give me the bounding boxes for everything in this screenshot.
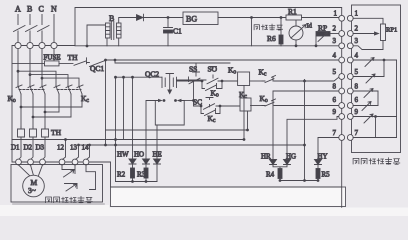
terminal D3: [40, 159, 46, 165]
svg-text:4: 4: [333, 52, 337, 60]
phase A input wire and knife switch: [14, 15, 26, 43]
riser 4 to 5: [383, 60, 385, 77]
svg-text:C1: C1: [173, 27, 182, 36]
resistor R3: [144, 168, 148, 178]
wire r5: [353, 76, 384, 78]
svg-text:c: c: [244, 94, 247, 100]
svg-text:TH: TH: [68, 53, 79, 62]
terminal 5: [339, 74, 345, 80]
svg-text:3: 3: [355, 37, 359, 45]
QC2 bridge contact arrows: [155, 99, 184, 101]
wire diode to BG: [144, 17, 184, 19]
thermal relay contact TH: [59, 58, 87, 66]
close button SC: [194, 98, 241, 110]
svg-text:4: 4: [355, 52, 359, 60]
wire lamp HO riser with bridge stub: [146, 101, 155, 160]
wire long vertical x105: [105, 60, 107, 145]
wire terminal 9 to HG lamp: [287, 117, 339, 160]
r terminal 8: [347, 88, 353, 94]
row1 wire: [177, 80, 238, 82]
thermal heater TH element 2: [30, 127, 37, 159]
wire Ko out3 down: [44, 94, 46, 127]
phase C drop to contactor: [41, 49, 43, 86]
lamp HR: [270, 160, 277, 165]
r terminal 2: [347, 31, 353, 37]
terminal 9: [339, 114, 345, 120]
wire HY to R5: [317, 165, 319, 169]
contactor Kc main contact 3: [77, 85, 83, 94]
vertical V1 to rails and lamp return: [115, 77, 117, 181]
wire D2 to motor: [31, 165, 34, 176]
lamp HG: [284, 160, 291, 165]
node primary tap on bus: [86, 45, 89, 48]
node r9-riser: [374, 115, 377, 118]
r terminal 7: [347, 135, 353, 141]
wire r9: [353, 116, 396, 118]
wire primary bottom stub: [106, 38, 108, 46]
contactor Kc main contact 2: [66, 85, 72, 94]
terminal B: [27, 42, 33, 48]
svg-text:RP: RP: [318, 24, 327, 33]
svg-text:RP1: RP1: [386, 27, 397, 34]
wire QC2 right to buttons: [177, 79, 207, 81]
limit switch row5: [366, 74, 375, 83]
stop button SS: [189, 63, 201, 84]
svg-text:TH: TH: [51, 128, 62, 137]
svg-text:FUSE: FUSE: [44, 54, 61, 62]
wire coil Kc to Ko contact: [251, 105, 263, 107]
wire R3 bottom: [145, 178, 147, 182]
contactor Ko main contact 1: [16, 85, 22, 94]
wire R1 to terminal 1: [302, 17, 339, 19]
wire row2 to terminal 6: [278, 105, 339, 107]
label 阀门电动装置 right: [353, 158, 400, 164]
limit switch b in motor box: [65, 184, 78, 192]
valve position meter: [289, 26, 303, 40]
right common vertical: [396, 60, 398, 138]
node crossover B: [32, 116, 35, 119]
svg-text:c: c: [264, 72, 267, 78]
wire BG to R1: [218, 17, 286, 19]
svg-text:9: 9: [355, 108, 359, 116]
contactor Ko main contact 2: [28, 85, 34, 94]
wire terminal 13 riser: [76, 145, 79, 159]
svg-text:HW: HW: [117, 151, 129, 159]
svg-text:c: c: [86, 98, 89, 104]
Kc mechanical link: [57, 89, 81, 91]
potentiometer RP body: [316, 32, 330, 37]
svg-text:D1: D1: [11, 144, 20, 152]
capacitor C1: [164, 18, 173, 46]
phase C input wire and knife switch: [38, 15, 50, 43]
svg-text:BG: BG: [186, 15, 197, 24]
contactor Kc main contact 1: [54, 85, 60, 94]
control rail A: [106, 129, 248, 131]
wire terminal 12 riser: [63, 140, 66, 160]
svg-text:6: 6: [333, 96, 337, 104]
wire secondary bottom to bus: [118, 38, 120, 46]
svg-text:5: 5: [355, 68, 359, 76]
phase B input wire and knife switch: [26, 15, 38, 43]
terminal column left: terminal 1: [339, 15, 345, 21]
limit switch a in motor box: [62, 170, 75, 178]
top bus / edge with supply terminals: [75, 45, 342, 47]
node crossover A: [20, 106, 23, 109]
svg-text:C: C: [39, 5, 44, 14]
r terminal 3: [347, 43, 353, 49]
node RP bottom: [315, 44, 318, 47]
node mid tap: [250, 16, 253, 19]
wire r8: [353, 90, 378, 92]
svg-text:QC1: QC1: [90, 64, 104, 73]
svg-text:6: 6: [355, 96, 359, 104]
limit switch row6: [362, 102, 371, 111]
voltage stabilizer BG box: [183, 12, 218, 25]
switch QC1: [87, 60, 107, 67]
right actuator box: [352, 5, 401, 153]
wire HW to R2: [132, 164, 134, 168]
node lamp return top: [303, 80, 306, 83]
thermal heater TH element 3: [42, 127, 49, 159]
terminal 6: [339, 103, 345, 109]
wire QC2 bridge right stub to SC branch: [184, 100, 193, 102]
svg-text:A: A: [15, 5, 21, 14]
limit switch row9: [364, 114, 373, 123]
wire R6 bottom to bus: [280, 44, 282, 46]
svg-text:SO: SO: [208, 65, 218, 74]
wire 13 into box: [74, 165, 76, 174]
node crossover C: [44, 111, 47, 114]
terminal D2: [28, 159, 34, 165]
holding contact Kc parallel below row2: [201, 106, 220, 116]
wire terminal2 to RP: [330, 33, 339, 35]
svg-text:o: o: [13, 98, 16, 104]
wire coil Ko bottom to bus: [243, 86, 245, 140]
svg-text:c: c: [213, 118, 216, 124]
diode D: [137, 14, 144, 21]
node meter bottom: [295, 44, 298, 47]
wire r4 with limit switch: [353, 59, 396, 61]
svg-text:13: 13: [70, 144, 78, 152]
wire terminal 8 to HR lamp: [273, 91, 339, 160]
crossover wire Kc1 to C line: [45, 111, 59, 113]
r terminal 9: [347, 114, 353, 120]
wire HE down: [156, 164, 158, 182]
wire 14 into box loop: [77, 165, 96, 190]
node C1 top: [167, 16, 170, 19]
wire Ko out2 down: [32, 94, 34, 127]
wire RP left down to bus: [315, 36, 317, 46]
lamp HW: [129, 159, 136, 164]
node row2 left: [200, 105, 203, 108]
white page area below figure: [0, 208, 408, 217]
main controller box outline: [12, 8, 342, 208]
terminal D1: [16, 159, 22, 165]
holding contact Ko parallel below row1: [202, 81, 222, 91]
terminal 7: [339, 135, 345, 141]
wire Kc out3 down: [81, 94, 83, 107]
crossover wire Kc3 to A line: [21, 106, 82, 108]
wire D1 to motor: [19, 165, 30, 176]
svg-text:N: N: [51, 5, 57, 14]
svg-text:R4: R4: [266, 171, 275, 179]
QC2 lower bridge bracket: [155, 101, 184, 126]
wire terminal 7 to HY lamp: [318, 138, 339, 160]
terminal 13: [72, 159, 78, 165]
vertical V2 tap: [123, 77, 125, 139]
switch QC2 upper contacts: [162, 77, 177, 87]
svg-text:7: 7: [333, 129, 337, 137]
second control rail: [115, 60, 230, 63]
fuse FUSE: [45, 61, 60, 66]
svg-text:1: 1: [334, 10, 338, 18]
resistor R5: [316, 169, 320, 179]
node lamp return on rail C: [114, 144, 117, 147]
lamp group bottom wire: [116, 181, 158, 183]
terminal N: [51, 42, 57, 48]
node branch C to Kc: [41, 77, 44, 80]
svg-text:o: o: [216, 93, 219, 99]
svg-text:5: 5: [333, 68, 337, 76]
wire HR HG join to R4: [273, 165, 287, 169]
svg-text:R2: R2: [117, 171, 126, 179]
resistor R4: [278, 169, 282, 179]
svg-text:QC2: QC2: [145, 70, 159, 79]
node rail x105: [104, 59, 107, 62]
lamp right bottom bus: [280, 179, 318, 181]
neutral N drop: [53, 49, 55, 61]
svg-text:2: 2: [355, 25, 359, 33]
svg-text:B: B: [27, 5, 32, 14]
interlock contact Kc (NC): [262, 76, 278, 83]
svg-text:HE: HE: [153, 151, 162, 159]
svg-text:R5: R5: [322, 171, 331, 179]
terminal column right: terminal 1: [347, 15, 353, 21]
terminal 4: [339, 57, 345, 63]
wire R6 tap down: [280, 18, 282, 36]
wire left edge to fuse: [12, 62, 45, 64]
resistor R6: [279, 35, 283, 44]
svg-text:D3: D3: [36, 144, 45, 152]
svg-text:SS: SS: [189, 65, 197, 74]
meter top wire: [295, 20, 297, 26]
relay coil Ko: [238, 72, 250, 86]
control rail C: [79, 144, 305, 146]
transformer core: [111, 22, 114, 40]
contactor Ko main contact 3: [40, 85, 46, 94]
wire terminal 14 riser: [87, 145, 90, 159]
svg-text:R6: R6: [267, 34, 276, 43]
neutral N input wire: [53, 15, 55, 43]
r terminal 6: [347, 103, 353, 109]
phase A drop to contactor: [17, 49, 19, 86]
wire Kc out2 down: [70, 94, 72, 117]
control rail B: [12, 139, 244, 141]
wire RP1 bottom to r3: [353, 41, 383, 50]
wire branch C to Kc contact3: [42, 78, 79, 86]
actuator motor box: [11, 165, 103, 203]
wire mid tap down to bus: [251, 18, 253, 46]
node branch B to Kc: [29, 73, 32, 76]
terminal 14: [83, 159, 89, 165]
limit switch open-end: [363, 58, 374, 67]
node r4-riser: [383, 59, 386, 62]
wire r6: [353, 105, 378, 107]
svg-text:9: 9: [333, 108, 337, 116]
RP wiper arrow: [318, 33, 328, 42]
svg-text:2: 2: [333, 25, 337, 33]
limit switch row8: [364, 89, 373, 98]
node branch A to Kc: [17, 70, 20, 73]
wire coil Kc bottom to bus: [247, 111, 249, 130]
wire 12 into box: [61, 165, 63, 170]
svg-text:R1: R1: [288, 7, 297, 16]
wire Ko out1 down: [20, 94, 22, 127]
wire meter bottom to bus: [295, 40, 297, 46]
terminal 3: [339, 43, 345, 49]
node row1 left: [201, 80, 204, 83]
transformer B secondary coil: [117, 23, 122, 38]
terminal A: [15, 42, 21, 48]
lamp HE: [154, 159, 161, 164]
wire lamp HW riser: [132, 77, 134, 159]
control rail to terminal 4: [107, 59, 339, 61]
wire R2 bottom: [132, 178, 134, 182]
resistor R1: [286, 15, 302, 20]
bottom margin white box of main unit: [111, 187, 346, 207]
terminal C: [39, 42, 45, 48]
terminal 8: [339, 88, 345, 94]
svg-text:1: 1: [355, 10, 359, 18]
wire Kc out1 down: [58, 94, 60, 112]
svg-text:D2: D2: [24, 144, 33, 152]
node rail x115: [114, 59, 117, 62]
QC2 plunger: [166, 74, 174, 94]
wire coil Ko to Kc contact: [250, 80, 262, 82]
riser 8 to 6: [377, 91, 379, 106]
svg-text:3: 3: [333, 37, 337, 45]
lamp HY: [315, 160, 322, 165]
node R6 tap: [280, 16, 283, 19]
relay coil Kc: [240, 98, 251, 111]
meter needle arrow Id: [291, 25, 306, 39]
node row2 right: [219, 105, 222, 108]
svg-text:HO: HO: [134, 151, 144, 159]
wire D3 to motor: [39, 165, 43, 176]
interlock contact Ko (NC): [262, 99, 278, 106]
label 阀位指示: [254, 24, 283, 30]
r terminal 4: [347, 57, 353, 63]
svg-text:o: o: [233, 70, 236, 76]
terminal 2: [339, 31, 345, 37]
wire lamp HE riser: [156, 125, 158, 159]
svg-text:7: 7: [355, 129, 359, 137]
wire primary top to bus via x87: [87, 25, 106, 46]
wire r1 to RP1: [353, 18, 383, 24]
svg-text:R3: R3: [137, 171, 146, 179]
phase B drop to contactor: [29, 49, 31, 86]
svg-text:8: 8: [333, 83, 337, 91]
node x105.5 on rail C: [104, 144, 107, 147]
wire r7: [353, 137, 396, 139]
resistor R2: [131, 168, 135, 178]
wire row1 down to row2 (left link): [193, 82, 195, 106]
transformer B primary coil: [106, 23, 111, 38]
svg-text:8: 8: [355, 83, 359, 91]
terminal 12: [59, 159, 65, 165]
r terminal 5: [347, 74, 353, 80]
svg-text:3~: 3~: [28, 186, 36, 195]
svg-text:Id: Id: [307, 23, 313, 30]
wire row1 to terminal 5: [278, 77, 339, 81]
svg-text:o: o: [265, 98, 268, 104]
svg-text:12: 12: [57, 144, 65, 152]
lamp return vertical right: [304, 80, 306, 181]
thermal heater TH element 1: [18, 127, 25, 159]
potentiometer RP1: [381, 24, 386, 41]
node row1 right: [221, 80, 224, 83]
wire r2 arrow to RP1 wiper: [353, 32, 378, 35]
Ko mechanical link: [19, 89, 44, 91]
wire QC2 left feed: [116, 76, 163, 78]
wire secondary top to diode: [119, 18, 136, 24]
white area below left actuator box: [0, 205, 109, 216]
wire branch B to Kc contact2: [30, 75, 68, 86]
riser 9 to 7: [375, 117, 377, 138]
label 阀门电动装置 left: [46, 196, 93, 202]
node coil Ko on rail B: [243, 138, 246, 141]
shadow under motor box: [13, 203, 104, 205]
wire HO to R3: [145, 164, 147, 168]
wire branch A to Kc contact1: [18, 71, 56, 86]
open button SO: [207, 67, 218, 84]
lamp HO: [143, 159, 150, 164]
motor M3~: [23, 175, 45, 197]
crossover wire Kc2 to B line: [33, 116, 71, 118]
